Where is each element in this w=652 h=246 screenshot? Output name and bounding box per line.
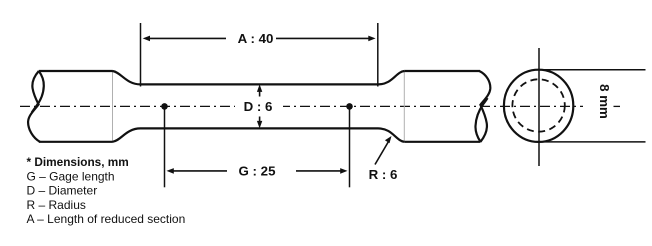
specimen outline: left grip top edge [39, 70, 113, 72]
svg-text:* Dimensions, mm: * Dimensions, mm [27, 155, 129, 169]
dimension A:40 left extension line [140, 23, 142, 87]
dimension A:40 left arrowhead [143, 36, 150, 42]
specimen outline: left grip bottom edge [39, 141, 113, 143]
svg-text:G – Gage length: G – Gage length [27, 169, 115, 183]
svg-text:R – Radius: R – Radius [27, 198, 86, 212]
svg-text:8 mm: 8 mm [597, 84, 612, 119]
svg-text:A : 40: A : 40 [238, 31, 274, 46]
specimen outline: reduced section top edge [141, 83, 379, 85]
svg-text:G : 25: G : 25 [239, 164, 277, 179]
specimen outline: left bottom fillet [113, 128, 141, 141]
dimension G:25 right extension line [349, 107, 351, 187]
dimension D:6 down arrow [259, 117, 261, 126]
dimension A:40 right extension line [377, 23, 379, 87]
svg-text:A – Length of reduced section: A – Length of reduced section [27, 212, 186, 226]
specimen outline: reduced section bottom edge [141, 127, 379, 129]
dimension A:40 line right segment [276, 37, 373, 39]
left break symbol (S-curve with crossover) [28, 71, 40, 142]
R:6 leader line [375, 142, 389, 165]
dimension A:40 right arrowhead [368, 36, 375, 42]
gage mark dot left [161, 103, 168, 110]
specimen outline: right bottom fillet [378, 128, 404, 141]
svg-text:D – Diameter: D – Diameter [27, 184, 98, 198]
dimension G:25 line left segment [170, 170, 227, 172]
svg-text:D : 6: D : 6 [244, 99, 273, 114]
dimension G:25 left arrowhead [167, 168, 174, 174]
gage mark dot right [346, 103, 353, 110]
horizontal centerline final dash [614, 105, 621, 107]
dimension D:6 up arrow [259, 88, 261, 97]
left fillet tangent line (gray) [112, 71, 114, 142]
R:6 leader arrowhead [385, 136, 392, 143]
cross-section dashed inner circle [512, 79, 564, 131]
specimen outline: left top fillet [113, 71, 141, 84]
right fillet tangent line (gray) [403, 71, 405, 142]
dimension G:25 right arrowhead [340, 168, 347, 174]
cross-section vertical centerline [538, 48, 540, 166]
cross-section outer circle [504, 70, 573, 142]
cross-section bottom tangent line [539, 141, 646, 143]
dimension A:40 line left segment [146, 37, 226, 39]
dimension G:25 left extension line [164, 107, 166, 187]
cross-section top tangent line [539, 69, 646, 71]
specimen outline: right grip top edge [404, 70, 480, 72]
specimen outline: right grip bottom edge [404, 141, 480, 143]
label D:6 [235, 98, 283, 114]
right break symbol (S-curve with crossover) [479, 71, 490, 142]
svg-text:R : 6: R : 6 [369, 167, 398, 182]
dimension G:25 line right segment [296, 170, 345, 172]
horizontal centerline [20, 105, 583, 107]
specimen outline: right top fillet [378, 71, 404, 84]
